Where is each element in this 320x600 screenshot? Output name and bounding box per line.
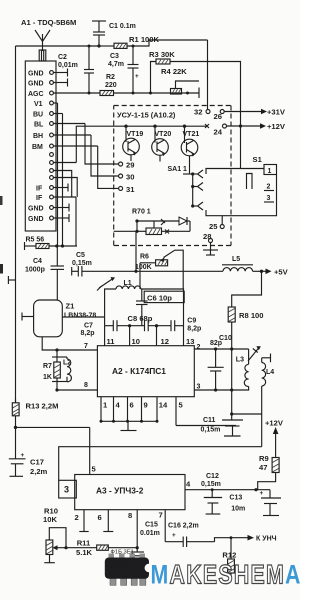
resistor R5 [25, 237, 78, 251]
svg-text:10m: 10m [231, 506, 245, 513]
pin 13 [184, 326, 195, 346]
wire +12V to S1 [240, 126, 242, 169]
svg-text:C3: C3 [110, 53, 119, 60]
diode VD [179, 217, 190, 231]
inductor L4 [262, 354, 275, 447]
pin 2 A3 [75, 510, 89, 532]
svg-text:24: 24 [214, 128, 223, 137]
svg-text:32: 32 [194, 108, 202, 117]
svg-text:L4: L4 [266, 369, 274, 376]
resistor R1 [99, 35, 208, 48]
wire +31V [224, 108, 286, 117]
svg-text:5.1K: 5.1K [76, 548, 93, 557]
capacitor C15 [131, 522, 160, 556]
capacitor C16 [165, 523, 214, 548]
wire V1 down [57, 103, 59, 246]
svg-text:8,2p: 8,2p [81, 330, 95, 337]
resistor R13 [12, 399, 58, 427]
svg-text:+: + [172, 532, 176, 539]
transistor VT19 [123, 126, 144, 161]
wire BU down [62, 114, 64, 247]
tuner box A1 [25, 61, 56, 231]
wire to pin5 A3 [90, 427, 97, 474]
svg-text:C11: C11 [203, 417, 216, 424]
capacitor C2 [58, 45, 94, 95]
wire +12V [227, 122, 286, 131]
svg-text:C5: C5 [76, 252, 85, 259]
svg-text:BM: BM [32, 144, 43, 151]
switch S1 [206, 155, 277, 216]
pin GND3 [28, 204, 69, 213]
pin 6 [128, 397, 134, 422]
svg-text:R11: R11 [77, 539, 91, 548]
svg-text:R12: R12 [222, 551, 236, 560]
svg-text:C9: C9 [187, 318, 196, 325]
svg-text:L3: L3 [236, 357, 244, 364]
wire BL to pin29 [85, 124, 119, 165]
pin IF1 [36, 184, 68, 193]
svg-text:1K: 1K [43, 374, 52, 381]
pin nc2 [50, 161, 77, 165]
svg-text:BH: BH [33, 133, 43, 140]
svg-text:4,7m: 4,7m [108, 61, 124, 68]
pin 10 [130, 326, 140, 346]
svg-text:R3 30K: R3 30K [149, 50, 175, 59]
svg-text:82p: 82p [210, 340, 222, 347]
pin 30 [119, 173, 135, 182]
svg-text:14: 14 [159, 401, 168, 410]
wire Z1 out [62, 316, 104, 318]
svg-text:A2 - К174ПС1: A2 - К174ПС1 [112, 366, 166, 376]
svg-text:GND: GND [28, 216, 44, 223]
svg-text:C13: C13 [229, 495, 242, 502]
tuner label A1 [21, 18, 76, 27]
svg-text:C16 2,2m: C16 2,2m [168, 523, 199, 530]
pin 26 [214, 110, 225, 122]
pin BH [33, 133, 91, 140]
resistor R70.1 [114, 209, 190, 235]
pin 3 [194, 384, 233, 392]
capacitor C7 label [81, 323, 95, 338]
pin 7 [42, 337, 97, 352]
pin 11 [105, 326, 116, 346]
pin 24 [205, 124, 227, 137]
svg-text:+: + [260, 490, 264, 497]
pin IF2 [36, 195, 76, 202]
resistor R8 [228, 307, 263, 349]
wire BM to pin31 [98, 146, 119, 188]
ground bus A2 [100, 420, 159, 431]
pin nc1 [50, 153, 54, 157]
resistor R3 [149, 50, 241, 126]
svg-text:К УНЧ: К УНЧ [256, 536, 277, 543]
pin nc3 [50, 169, 72, 197]
svg-text:PYKAMM: PYKAMM [109, 565, 123, 569]
antenna connector [39, 50, 46, 61]
svg-text:+12V: +12V [267, 122, 286, 131]
pin GND4 [28, 214, 69, 223]
wire left rail [15, 46, 17, 403]
capacitor C13 [229, 490, 281, 516]
svg-text:C12: C12 [206, 473, 219, 480]
svg-text:GND: GND [28, 71, 44, 78]
svg-text:10K: 10K [43, 515, 57, 524]
svg-text:8,2p: 8,2p [187, 326, 201, 333]
svg-text:220: 220 [105, 82, 117, 89]
svg-text:L5: L5 [232, 256, 240, 263]
IC A3 [75, 475, 185, 510]
svg-text:10: 10 [132, 337, 140, 346]
svg-text:47: 47 [259, 463, 267, 472]
switch contact c [191, 202, 203, 210]
filter Z1 [34, 300, 97, 337]
wire +5V to R8 [232, 271, 262, 307]
resistor R12 [222, 536, 236, 579]
capacitor C6 [136, 289, 184, 326]
svg-text:11: 11 [107, 337, 116, 346]
wire L4 to pin3 A3 [59, 447, 262, 481]
svg-text:R8 100: R8 100 [239, 311, 264, 320]
transistor VT20 [152, 126, 172, 161]
svg-text:9: 9 [144, 401, 148, 410]
tuning arrow L3 [248, 346, 261, 361]
svg-text:C1 0.1m: C1 0.1m [109, 23, 136, 30]
svg-text:C6 10p: C6 10p [147, 294, 172, 303]
svg-text:0.01m: 0.01m [140, 530, 160, 537]
wire pin3 down [230, 390, 262, 416]
resistor R2 [100, 74, 199, 96]
svg-text:25: 25 [209, 222, 218, 231]
tuning arrow L1 [97, 277, 115, 291]
svg-text:R2: R2 [106, 74, 115, 81]
watermark chip top tabs [109, 554, 146, 559]
module label USU [117, 111, 176, 120]
pin GND2 [28, 79, 68, 88]
scan smudge 2 [0, 264, 3, 274]
pin 4 [114, 397, 121, 422]
svg-text:A3 - УПЧ3-2: A3 - УПЧ3-2 [96, 486, 144, 496]
svg-text:8: 8 [84, 382, 88, 389]
pin 31 [119, 185, 136, 194]
svg-text:УСУ-1-15 (A10.2): УСУ-1-15 (A10.2) [117, 111, 176, 120]
svg-text:R6: R6 [140, 254, 149, 261]
wire supply top [16, 45, 100, 47]
wire K UNCH [215, 535, 277, 543]
resistor R7 [43, 350, 67, 382]
pin 12 [157, 326, 169, 346]
svg-text:VT20: VT20 [155, 131, 172, 138]
terminal rail stub [8, 276, 15, 284]
wire contact rail [192, 174, 194, 206]
svg-text:100K: 100K [135, 264, 152, 271]
svg-text:+12V: +12V [265, 419, 284, 428]
svg-text:30: 30 [126, 173, 134, 182]
antenna [35, 30, 50, 51]
svg-text:31: 31 [126, 185, 135, 194]
svg-text:1000p: 1000p [25, 267, 45, 274]
pin 3 box A3 [59, 480, 77, 498]
svg-text:GND: GND [28, 206, 44, 213]
svg-text:13: 13 [186, 337, 194, 346]
svg-text:R13 2,2M: R13 2,2M [26, 402, 59, 411]
capacitor C8 [105, 314, 184, 331]
pin nc4 [50, 176, 78, 197]
svg-text:SA1 1: SA1 1 [168, 166, 188, 173]
svg-text:A1 - TDQ-5B6M: A1 - TDQ-5B6M [21, 18, 76, 27]
svg-text:V1: V1 [34, 101, 43, 108]
resistor R11 [66, 539, 139, 558]
svg-text:7: 7 [159, 511, 163, 520]
switch contact a [183, 170, 203, 178]
IC A2 [97, 346, 194, 397]
pin 32 [194, 40, 210, 117]
svg-text:C2: C2 [58, 54, 67, 61]
capacitor C10 [208, 335, 232, 390]
svg-text:R9: R9 [259, 454, 269, 463]
svg-text:C4: C4 [33, 258, 42, 265]
wire BH to pin30 [91, 135, 119, 176]
pin 4 A3 [185, 480, 270, 492]
capacitor C5 [72, 252, 223, 277]
svg-text:C7: C7 [84, 323, 93, 330]
pin 5 [176, 397, 236, 426]
pin 25 [209, 216, 224, 231]
potentiometer R6 [135, 250, 183, 289]
svg-text:6: 6 [98, 513, 102, 522]
inductor L2 [63, 357, 71, 382]
capacitor C17 [9, 427, 48, 476]
svg-text:MAKESHEMA: MAKESHEMA [151, 560, 301, 590]
pin 6 A3 [98, 510, 114, 532]
potentiometer R10 [43, 507, 68, 563]
svg-text:C17: C17 [30, 458, 44, 467]
pin V1 [34, 101, 58, 108]
watermark chip body [105, 558, 153, 579]
pin 1 [101, 397, 108, 422]
wire IF2 down [75, 197, 77, 246]
svg-text:3: 3 [267, 195, 271, 202]
svg-text:R5 56: R5 56 [26, 237, 45, 244]
svg-text:0,15m: 0,15m [72, 260, 92, 267]
wire R70 down [134, 231, 137, 273]
watermark logo text [151, 560, 302, 590]
tank circuit wires [105, 289, 184, 326]
svg-text:2: 2 [267, 184, 271, 191]
wire pin2 net down [231, 349, 233, 390]
svg-text:12: 12 [161, 337, 169, 346]
switch contact b [191, 183, 203, 191]
pin BM [32, 144, 98, 151]
svg-text:28: 28 [203, 232, 211, 241]
svg-text:C15: C15 [145, 522, 158, 529]
pin 14 [157, 397, 168, 422]
svg-text:2,2m: 2,2m [30, 467, 48, 476]
filter label F1B [111, 550, 134, 556]
wire nc2 riser [76, 126, 97, 162]
switch label SA1 [168, 166, 188, 173]
wire +5V [260, 268, 289, 277]
svg-text:1: 1 [268, 168, 272, 175]
resistor R4 [161, 67, 199, 98]
inductor L3 [232, 349, 249, 390]
capacitor C3 [108, 45, 139, 95]
svg-text:7: 7 [84, 343, 88, 350]
terminal Z1 stub [22, 313, 34, 321]
svg-text:+5V: +5V [274, 268, 289, 277]
capacitor C1 [92, 21, 136, 48]
pin 28 [203, 232, 213, 243]
watermark chip pins [110, 578, 146, 585]
svg-text:2: 2 [75, 513, 79, 522]
inductor L5 [222, 256, 262, 271]
svg-text:BL: BL [34, 122, 44, 129]
svg-text:+31V: +31V [267, 108, 286, 117]
svg-text:0,15m: 0,15m [201, 427, 221, 434]
svg-text:AGC: AGC [28, 91, 44, 98]
svg-text:VT19: VT19 [127, 131, 144, 138]
pin 2 [194, 344, 248, 351]
svg-text:IF: IF [36, 186, 43, 193]
svg-text:+: + [135, 73, 139, 80]
pin 9 [142, 397, 148, 422]
scan smudge 1 [0, 196, 3, 205]
svg-text:8: 8 [128, 511, 132, 520]
capacitor C9 label [187, 318, 201, 333]
resistor R9 [258, 454, 279, 490]
svg-text:3: 3 [64, 485, 69, 495]
module box USU dashed [114, 106, 231, 246]
capacitor C12 [201, 473, 222, 514]
svg-text:Z1: Z1 [66, 302, 76, 311]
svg-text:0,15m: 0,15m [201, 481, 221, 488]
svg-text:29: 29 [126, 161, 134, 170]
svg-text:+: + [21, 452, 25, 459]
capacitor C11 [201, 414, 244, 436]
node R13 C17 [14, 426, 90, 429]
pin 8 A3 [128, 510, 137, 552]
svg-text:6: 6 [130, 401, 134, 410]
pin 8 [55, 382, 97, 392]
pin BL [34, 122, 85, 129]
svg-text:R7: R7 [43, 363, 52, 370]
supply +12V lower [265, 419, 284, 458]
transistor VT21 [181, 126, 199, 174]
svg-text:R4 22K: R4 22K [161, 67, 187, 76]
svg-text:GND: GND [28, 81, 44, 88]
pin AGC [28, 91, 100, 98]
svg-text:IF: IF [36, 195, 43, 202]
svg-text:C8 68p: C8 68p [128, 314, 153, 323]
wire collector bus [97, 125, 207, 128]
ground pin28 [203, 243, 218, 256]
inductor L1 [116, 280, 141, 289]
svg-text:BU: BU [33, 112, 43, 119]
svg-text:2: 2 [197, 344, 201, 351]
svg-text:R70 1: R70 1 [132, 209, 151, 216]
pin 29 [119, 161, 135, 170]
svg-text:S1: S1 [253, 155, 263, 164]
svg-text:0,01m: 0,01m [58, 62, 78, 69]
svg-text:LBN38-78: LBN38-78 [64, 313, 96, 320]
capacitor C4 [25, 246, 64, 300]
pin 7 A3 [159, 510, 166, 542]
pin GND1 [28, 69, 68, 78]
pin BU [33, 112, 63, 119]
